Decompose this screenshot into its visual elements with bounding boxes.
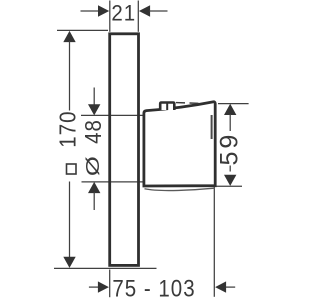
svg-text:Ø: Ø [82,155,103,176]
svg-text:21: 21 [111,2,136,26]
svg-text:170: 170 [55,111,81,148]
svg-text:48: 48 [80,119,106,144]
svg-text:59: 59 [215,132,243,166]
svg-text:75 - 103: 75 - 103 [112,275,195,300]
